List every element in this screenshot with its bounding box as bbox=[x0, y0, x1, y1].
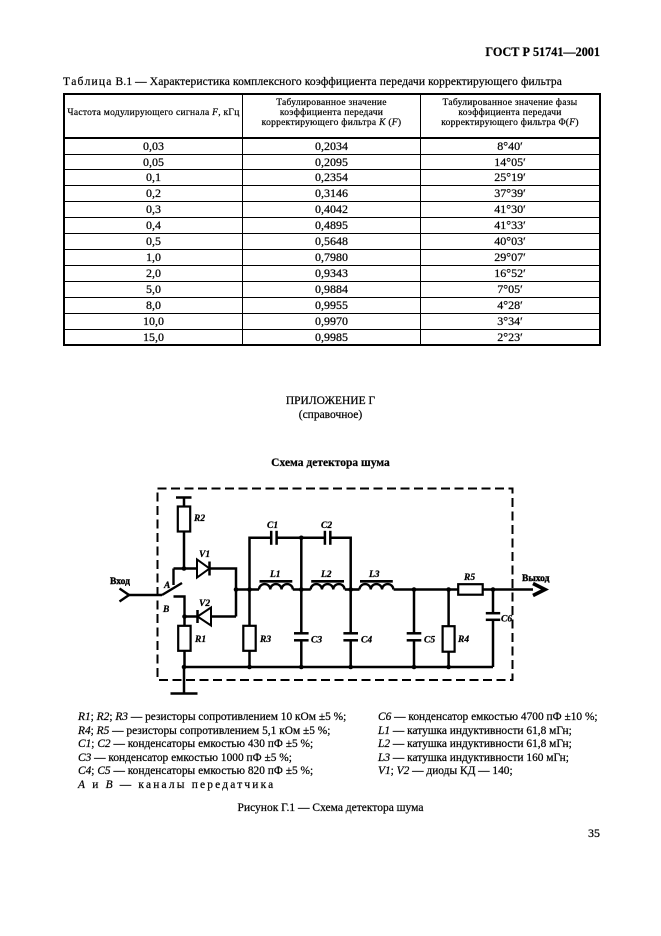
svg-text:L3: L3 bbox=[368, 570, 380, 580]
junction main line / C3 riser bbox=[299, 587, 304, 592]
inductor L2 bbox=[311, 570, 345, 590]
wire between C1 and C2 bbox=[277, 537, 325, 540]
table B.1 bbox=[63, 93, 601, 346]
svg-text:R5: R5 bbox=[463, 573, 475, 583]
svg-text:V2: V2 bbox=[199, 599, 210, 609]
svg-text:Вход: Вход bbox=[110, 577, 130, 587]
component list right column bbox=[378, 711, 658, 779]
diode V2 bbox=[198, 599, 212, 626]
wire riser node2 bbox=[300, 538, 303, 590]
svg-text:С6: С6 bbox=[501, 615, 512, 625]
svg-text:А: А bbox=[163, 581, 170, 591]
inductor L3 bbox=[360, 570, 394, 590]
switch blade bbox=[162, 583, 182, 595]
svg-text:В: В bbox=[162, 605, 169, 615]
resistor R1 bbox=[178, 617, 206, 668]
junction B contact / V2 cathode / R1 bbox=[182, 614, 187, 619]
svg-text:R2: R2 bbox=[193, 514, 205, 524]
junction bottom rail / C5 bbox=[412, 665, 417, 670]
svg-text:С3: С3 bbox=[311, 636, 322, 646]
junction diode column / main line bbox=[234, 587, 239, 592]
wire main line L3 to R5 bbox=[394, 588, 458, 591]
svg-text:V1: V1 bbox=[199, 550, 210, 560]
junction R2 lead / V1 anode bbox=[182, 566, 187, 571]
wire top coupling row bbox=[250, 538, 272, 590]
table caption bbox=[63, 76, 623, 88]
junction C1-C2 row / riser node 2 bbox=[299, 536, 304, 541]
svg-text:R4: R4 bbox=[457, 635, 469, 645]
svg-text:Выход: Выход bbox=[522, 574, 550, 584]
svg-text:L1: L1 bbox=[269, 570, 281, 580]
junction bottom rail / C3 bbox=[299, 665, 304, 670]
schematic figure Г.1 bbox=[0, 480, 661, 715]
svg-text:R3: R3 bbox=[259, 635, 271, 645]
capacitor C1 bbox=[267, 521, 278, 545]
wire contact A stub bbox=[172, 569, 174, 586]
junction main line / R4 riser bbox=[446, 587, 451, 592]
figure caption bbox=[0, 802, 661, 814]
wire input bbox=[129, 594, 163, 597]
capacitor C6 bbox=[486, 590, 513, 668]
output arrowhead bbox=[533, 584, 545, 596]
junction main line / C5 riser bbox=[412, 587, 417, 592]
resistor R2 bbox=[176, 498, 205, 569]
junction main line / C4 riser bbox=[348, 587, 353, 592]
ground bbox=[171, 667, 198, 694]
resistor R4 bbox=[443, 590, 470, 668]
svg-text:С2: С2 bbox=[321, 521, 332, 531]
svg-text:С5: С5 bbox=[424, 636, 435, 646]
wire bottom rail bbox=[184, 666, 493, 669]
junction bottom rail / R3 bbox=[247, 665, 252, 670]
wire contact B stub bbox=[174, 597, 185, 617]
page number bbox=[586, 826, 602, 841]
wire V1 cathode to main node bbox=[210, 569, 237, 617]
resistor R3 bbox=[243, 590, 271, 668]
svg-text:С1: С1 bbox=[267, 521, 278, 531]
capacitor C4 bbox=[343, 590, 372, 668]
junction main line / R3 riser bbox=[247, 587, 252, 592]
component list left column bbox=[78, 711, 378, 793]
wire V1 anode bbox=[174, 567, 198, 570]
wire C2 to riser bbox=[330, 538, 350, 590]
junction bottom rail / R4 bbox=[446, 665, 451, 670]
junction bottom rail / R1 ground bbox=[182, 665, 187, 670]
capacitor C3 bbox=[294, 590, 322, 668]
capacitor C2 bbox=[321, 521, 332, 545]
wire main line node to L1 bbox=[236, 588, 259, 591]
wire V2 anode bbox=[211, 615, 236, 618]
svg-text:R1: R1 bbox=[194, 635, 206, 645]
svg-text:L2: L2 bbox=[320, 570, 332, 580]
svg-text:С4: С4 bbox=[361, 636, 372, 646]
figure title bbox=[0, 457, 661, 469]
dashed enclosure bbox=[158, 489, 513, 681]
appendix heading bbox=[0, 395, 661, 407]
inductor L1 bbox=[259, 570, 293, 590]
junction bottom rail / C4 bbox=[348, 665, 353, 670]
wire main line L1 to L2 bbox=[293, 588, 311, 591]
input arrow bbox=[120, 589, 130, 602]
wire output bbox=[483, 588, 533, 591]
running header ГОСТ Р 51741-2001 bbox=[380, 45, 600, 60]
capacitor C5 bbox=[407, 590, 436, 668]
wire V2 cathode bbox=[185, 615, 198, 618]
resistor R5 bbox=[458, 573, 483, 595]
wire main line L2 to L3 bbox=[345, 588, 360, 591]
junction main line / C6 output node bbox=[491, 587, 496, 592]
diode V1 bbox=[197, 550, 210, 578]
